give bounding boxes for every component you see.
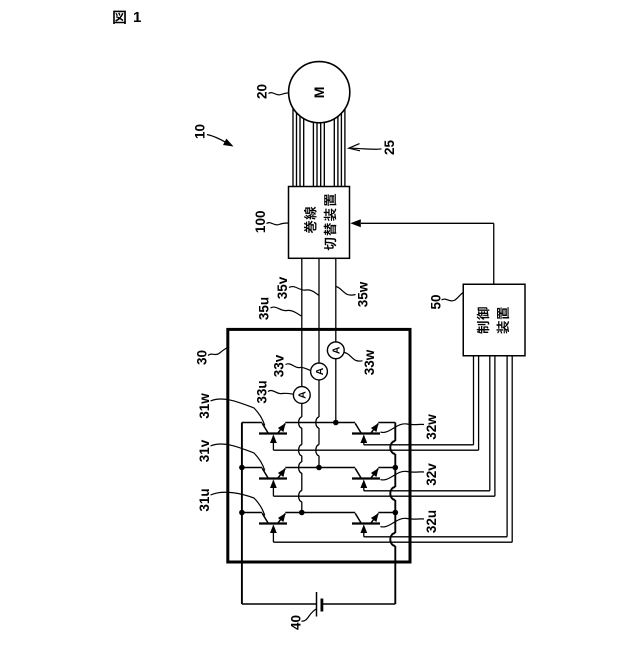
svg-text:32u: 32u: [424, 510, 439, 533]
svg-text:31w: 31w: [197, 393, 212, 419]
svg-text:50: 50: [428, 294, 443, 309]
svg-text:35w: 35w: [355, 281, 370, 307]
svg-text:100: 100: [253, 211, 268, 234]
svg-text:32v: 32v: [424, 463, 439, 486]
svg-text:33v: 33v: [271, 354, 286, 377]
svg-text:A: A: [331, 346, 343, 354]
svg-text:20: 20: [254, 84, 269, 99]
svg-text:A: A: [297, 391, 309, 399]
svg-text:31u: 31u: [197, 488, 212, 511]
svg-text:30: 30: [194, 350, 209, 365]
svg-text:M: M: [311, 87, 327, 99]
svg-text:A: A: [314, 367, 326, 375]
svg-text:31v: 31v: [197, 439, 212, 462]
svg-text:35v: 35v: [275, 276, 290, 299]
svg-text:32w: 32w: [424, 414, 439, 440]
svg-text:35u: 35u: [256, 297, 271, 320]
svg-text:33w: 33w: [362, 349, 377, 375]
svg-text:10: 10: [192, 124, 207, 139]
svg-text:40: 40: [288, 615, 303, 630]
svg-text:25: 25: [382, 140, 397, 156]
svg-text:1: 1: [133, 9, 141, 26]
svg-text:33u: 33u: [254, 380, 269, 403]
